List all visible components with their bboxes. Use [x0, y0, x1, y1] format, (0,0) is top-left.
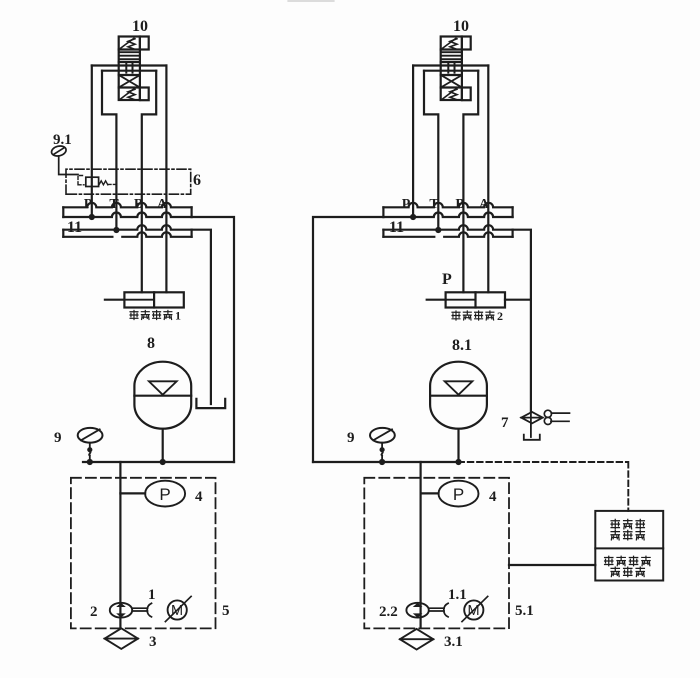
text 壓力表 [611, 530, 644, 540]
valve 10 middle position lines [120, 52, 140, 59]
svg-text:P: P [159, 485, 170, 504]
svg-text:10: 10 [132, 18, 148, 35]
manifold 11' bar1 bottom line with hops [383, 213, 512, 218]
power unit dashed box 5.1 [364, 478, 509, 629]
label 10 (right valve) [453, 18, 469, 35]
text 數顯示 [611, 519, 644, 529]
junction dot T to bar2 [113, 227, 119, 233]
wire B riser [142, 71, 156, 293]
valve 10 pilot box bottom right [140, 88, 149, 101]
label 11 (right manifold) [389, 219, 404, 236]
text 調整器 [611, 567, 644, 577]
cylinder 夹爪油缸1 [105, 292, 184, 307]
coupling shaft pump-motor right [429, 603, 448, 617]
wire P riser [91, 66, 93, 217]
wire tank/drain from bar2 to component 7 [513, 230, 531, 412]
coupling shaft pump-motor [132, 603, 151, 617]
wire A riser [165, 66, 167, 293]
label 10 (left valve) [132, 18, 148, 35]
wire pressure supply from bar1 to bus [192, 217, 234, 462]
svg-text:2.2: 2.2 [379, 604, 398, 620]
manifold 11 channel bar1 bottom line with hops [63, 213, 191, 218]
svg-text:5.1: 5.1 [515, 603, 534, 619]
wire upper line P-A through right valve [413, 64, 488, 66]
pressure sensor 4 (right) [421, 481, 497, 507]
pressure sensor 4 (left) [120, 481, 203, 507]
text 伺服壓力 [605, 556, 651, 566]
label 5 [222, 603, 230, 619]
svg-text:2: 2 [90, 604, 98, 620]
tank symbol (left) [196, 399, 225, 408]
pump 2 [90, 603, 132, 620]
filter 3.1 [400, 629, 463, 650]
valve 10' pilot box top right [462, 37, 471, 50]
valve 10 top solenoid symbol [120, 38, 136, 49]
junction dot P' to bar1 [410, 214, 416, 220]
manifold 11' bar2 bottom line with hops (gap at T) [383, 232, 512, 237]
manifold 11' bar2 top line with hops [383, 225, 512, 230]
valve 10' top solenoid symbol [442, 38, 458, 49]
label 8.1 (right accumulator) [452, 337, 472, 354]
wire lower line T-B through valve [102, 70, 156, 72]
wire pressure supply left leg to bus (right circuit) [313, 217, 383, 462]
svg-text:8: 8 [147, 335, 155, 352]
solenoid valve U10' body [441, 37, 462, 101]
svg-text:9: 9 [347, 430, 355, 446]
label 5.1 [515, 603, 534, 619]
label P (cylinder 2 line) [442, 271, 452, 288]
filter 3 [105, 628, 157, 650]
valve 10' bottom solenoid symbol [442, 89, 458, 100]
svg-text:4: 4 [489, 489, 497, 505]
wire pump column right [420, 462, 422, 628]
svg-text:3: 3 [149, 634, 157, 650]
svg-text:P: P [453, 485, 464, 504]
motor 1.1 [448, 587, 488, 622]
wire pump column [119, 462, 121, 628]
svg-text:P: P [442, 271, 452, 288]
valve 10' pilot box bottom right [462, 88, 471, 101]
wire main bus (left) [83, 461, 234, 463]
faint top scan artifact [288, 0, 334, 2]
valve 10' middle position lines [442, 52, 462, 59]
junction dot accumulator-bus right [455, 459, 461, 465]
wire accumulator to bus [162, 429, 164, 462]
manifold 11 channel bar1 top line with hops [63, 203, 191, 207]
solenoid valve U10 body [119, 37, 140, 101]
gauge 9 (left) [54, 428, 103, 465]
wire P riser right [412, 66, 414, 217]
wire box5.1 to regulator box [509, 564, 595, 566]
pilot relief valve 6 [66, 169, 201, 194]
manifold 11' port labels [402, 197, 490, 212]
tank symbol under 7 [524, 435, 540, 440]
svg-text:T: T [109, 197, 119, 212]
valve 10 crossed position [119, 75, 139, 87]
pump 2.2 [379, 603, 429, 620]
valve 10' crossed position [441, 75, 461, 87]
svg-text:7: 7 [501, 415, 509, 431]
manifold 11 channel bar2 bottom line with hops (gap at T) [63, 232, 191, 237]
svg-text:10: 10 [453, 18, 469, 35]
wire T riser [102, 71, 116, 230]
valve 10' center ports dashes [448, 63, 454, 72]
wire A riser right [487, 66, 489, 293]
wire tank return from bar2 [192, 230, 211, 404]
cylinder1 label 夹爪油缸1 [130, 309, 181, 323]
manifold 11' bar1 top line with hops [383, 203, 512, 207]
wire accumulator 8.1 to bus [457, 429, 459, 462]
label 7 [501, 415, 509, 431]
svg-text:1: 1 [148, 587, 156, 603]
svg-text:9: 9 [54, 430, 62, 446]
motor 1 [148, 587, 191, 622]
junction dot P to bar1 [89, 214, 95, 220]
manifold 11 port labels [84, 197, 168, 212]
svg-text:11: 11 [67, 219, 82, 236]
wire upper line P-A through valve [92, 64, 167, 66]
accumulator 8.1 [430, 362, 487, 429]
svg-text:2: 2 [497, 309, 503, 323]
svg-text:3.1: 3.1 [444, 634, 463, 650]
display/regulator box [595, 511, 663, 581]
manifold 11 channel bar2 top line with hops [63, 225, 191, 230]
accumulator 8 [134, 362, 191, 429]
valve 10 pilot box top right [140, 37, 149, 50]
manifold 11 bar end caps [63, 207, 191, 237]
svg-text:4: 4 [195, 489, 203, 505]
wire T riser right [424, 71, 438, 230]
valve 10 bottom solenoid symbol [120, 89, 136, 100]
dashed signal line bus to display box [459, 462, 629, 511]
wire main bus (right) [313, 461, 459, 463]
wire B riser right [463, 71, 478, 293]
valve 10 center ports dashes [126, 63, 132, 72]
manifold 11' bar end caps [383, 207, 512, 237]
cylinder2 label 夹爪油缸2 [452, 309, 503, 323]
svg-text:8.1: 8.1 [452, 337, 472, 354]
wire lower line T-B through right valve [424, 70, 478, 72]
svg-text:5: 5 [222, 603, 230, 619]
bowtie coupler beside 7 [544, 410, 569, 424]
svg-text:11: 11 [389, 219, 404, 236]
cylinder 夹爪油缸2 [427, 292, 531, 307]
label 8 (accumulator) [147, 335, 155, 352]
gauge 9 (right) [347, 428, 395, 465]
junction dot T' to bar2 [435, 227, 441, 233]
check/drain unit 7 diamond [521, 412, 543, 437]
junction dot accumulator-bus [160, 459, 166, 465]
svg-text:1: 1 [175, 309, 181, 323]
svg-text:6: 6 [193, 172, 201, 189]
power unit dashed box 5 [71, 478, 216, 629]
label 11 (left manifold) [67, 219, 82, 236]
gauge 9.1 [50, 132, 78, 175]
svg-text:1.1: 1.1 [448, 587, 467, 603]
